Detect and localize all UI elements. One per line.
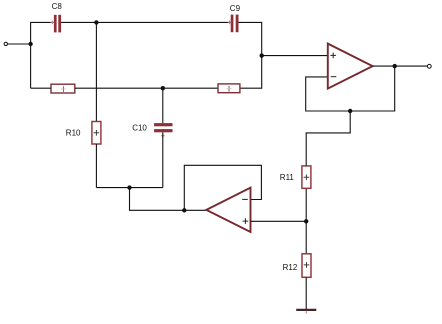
wire node E down and right to U2 output (130, 188, 207, 211)
wire noninverting input U1 (262, 55, 328, 57)
wire U2 feedback loop (184, 165, 261, 210)
capacitor C9 (228, 15, 239, 33)
resistor (horizontal, left, unlabeled) (51, 84, 75, 93)
wire left vertical (30, 22, 32, 88)
op-amp U2 (206, 188, 250, 232)
node F junction (182, 208, 186, 212)
wire bottom row (96, 187, 162, 189)
svg-text:R11: R11 (280, 173, 295, 182)
wire C9 to corner (239, 22, 262, 55)
wire U1 output (373, 65, 428, 67)
node G junction (304, 219, 308, 223)
wire U1 feedback rail (306, 66, 395, 111)
wire node B to C9 (96, 21, 230, 23)
svg-text:C10: C10 (132, 124, 147, 133)
wire node G down to R12 (305, 221, 307, 254)
node I junction (393, 64, 397, 68)
wire R11 top with step to node H (306, 111, 350, 166)
resistor R12 (302, 254, 311, 277)
wire node B down to R10 (95, 22, 97, 121)
wire R10 bottom (95, 144, 97, 188)
op-amp U1 (328, 44, 373, 89)
node E junction (127, 185, 131, 189)
wire R12 bottom (305, 277, 307, 310)
wire U2 noninverting input (251, 220, 307, 222)
node B junction (94, 20, 98, 24)
node H junction (348, 109, 352, 113)
wire resistor row left (31, 87, 51, 89)
capacitor C8 (51, 15, 62, 33)
wire C8 to node B (61, 21, 96, 23)
svg-text:R12: R12 (283, 263, 298, 272)
wire C10 bottom lead (162, 132, 164, 187)
resistor R11 (302, 166, 311, 188)
ground (296, 310, 316, 314)
output terminal (427, 64, 431, 68)
svg-text:C9: C9 (230, 4, 241, 13)
svg-text:R10: R10 (66, 129, 81, 138)
wire input stub (8, 43, 31, 45)
resistor R10 (92, 122, 101, 145)
node C junction (260, 53, 264, 57)
svg-text:C8: C8 (52, 2, 63, 11)
wire corner down to resistor row (240, 56, 262, 89)
wire top rail to C8 (30, 21, 54, 23)
input terminal (4, 42, 7, 45)
wire resistor row middle (75, 87, 218, 89)
node A junction (28, 42, 32, 46)
wire node G up to R11 (305, 188, 307, 221)
node C10top junction (161, 86, 165, 90)
resistor (horizontal, right, unlabeled) (218, 84, 240, 93)
capacitor C10 (154, 123, 172, 138)
wire C10 top lead (162, 88, 164, 123)
